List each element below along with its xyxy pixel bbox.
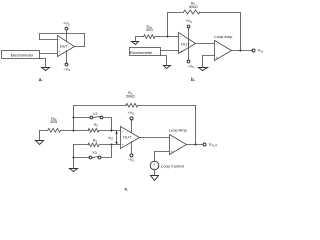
wire feedback right vertical (fig b): [240, 13, 242, 51]
instrument box Electrometer (fig b): [130, 48, 161, 56]
wire loop amp noninverting input to ground (fig b): [203, 56, 215, 68]
svg-text:Loop Amp: Loop Amp: [169, 128, 188, 133]
node A summing junction (fig c): [73, 130, 75, 132]
svg-text:DUT: DUT: [181, 41, 190, 46]
wire DUT output to loop amp (fig c): [140, 137, 170, 139]
svg-text:+: +: [153, 162, 155, 166]
wire electrometer LO stub (fig a): [40, 59, 46, 68]
svg-text:Electrometer: Electrometer: [130, 50, 153, 55]
node summing junction (fig b): [167, 36, 169, 38]
ground left lower (fig c): [70, 169, 78, 172]
svg-text:b.: b.: [191, 77, 195, 82]
wire feedback loop output to inverting input (fig a): [40, 34, 85, 47]
svg-text:K3: K3: [93, 151, 97, 155]
node lower rail right (fig c): [111, 144, 113, 146]
resistor RIN 50ohm (fig c): [48, 117, 61, 132]
ground at input resistor (fig b): [132, 37, 139, 45]
op-amp Loop Amp (fig b): [214, 34, 233, 60]
ground electrometer LO (fig a): [42, 68, 50, 71]
svg-text:+: +: [180, 49, 182, 53]
wire electrometer LO stub (fig b): [161, 56, 167, 66]
switch K2 (fig c): [74, 116, 112, 130]
wire input line (fig c): [40, 130, 121, 132]
terminal +VS (fig b): [185, 18, 192, 28]
svg-text:DUT: DUT: [60, 43, 69, 48]
terminal VOUT (fig b): [252, 48, 266, 54]
wire feedback right vertical (fig c): [195, 106, 197, 145]
wire input node (fig b): [136, 36, 179, 38]
svg-text:Loop Control: Loop Control: [161, 163, 184, 168]
terminal +VS (fig a): [63, 21, 70, 42]
wire top feedback line (fig c): [74, 105, 196, 107]
svg-text:+: +: [59, 50, 61, 54]
svg-text:VIO: VIO: [108, 136, 113, 141]
svg-text:DUT: DUT: [123, 135, 132, 140]
resistor RF 50kohm (fig b): [184, 2, 200, 14]
terminal -VS (fig c): [128, 142, 135, 163]
wire loop control to ground (fig c): [154, 171, 156, 176]
resistor RIN 50ohm (fig b): [144, 25, 156, 39]
wire output (fig c): [187, 144, 203, 146]
svg-text:Electrometer: Electrometer: [11, 52, 34, 57]
svg-text:VOUT: VOUT: [209, 142, 218, 148]
svg-text:−: −: [59, 38, 61, 42]
svg-text:c.: c.: [124, 186, 128, 191]
svg-text:+: +: [171, 150, 173, 154]
ground loop amp input (fig b): [199, 68, 208, 71]
op-amp DUT (fig b): [179, 33, 196, 54]
svg-text:50Ω: 50Ω: [146, 28, 153, 32]
wire DUT inverting input (fig a): [40, 39, 58, 41]
wire supply vertical through DUT (fig b): [188, 28, 190, 60]
wire loop amp noninverting input to loop control (fig c): [155, 152, 170, 162]
svg-text:−: −: [171, 137, 173, 141]
svg-text:−: −: [216, 42, 218, 46]
instrument box Electrometer (fig a): [2, 51, 40, 59]
ground electrometer LO (fig b): [164, 66, 171, 69]
ground loop control (fig c): [151, 176, 159, 181]
source Loop Control (fig c): [150, 161, 184, 171]
svg-text:50kΩ: 50kΩ: [189, 5, 198, 9]
svg-text:+: +: [122, 143, 124, 147]
op-amp U1 DUT (fig a): [58, 36, 75, 57]
measurement arrow VIO (fig c): [108, 131, 118, 145]
node K2 tap (fig c): [73, 117, 75, 119]
node upper rail right (fig c): [111, 130, 113, 132]
resistor RS lower (fig c): [88, 138, 99, 147]
terminal -VS (fig b): [187, 60, 194, 69]
resistor RF 50kohm (fig c): [126, 91, 138, 107]
svg-text:−: −: [122, 129, 124, 133]
wire feedback top (fig b): [168, 12, 241, 14]
op-amp DUT (fig c): [121, 127, 140, 149]
switch K3 (fig c): [74, 145, 112, 159]
wire DUT output to loop amp (fig b): [196, 43, 215, 45]
svg-text:RS: RS: [94, 123, 98, 128]
svg-text:+: +: [216, 56, 218, 60]
svg-text:50Ω: 50Ω: [50, 120, 57, 124]
wire feedback left vertical (fig b): [167, 13, 169, 37]
wire left vertical lower to ground (fig c): [73, 145, 75, 169]
svg-text:K2: K2: [93, 112, 97, 116]
terminal -VS (fig a): [63, 51, 70, 72]
wire lower rail (fig c): [74, 144, 121, 146]
svg-text:Loop Amp: Loop Amp: [214, 34, 233, 39]
svg-text:a.: a.: [39, 77, 43, 82]
svg-text:RS: RS: [93, 138, 97, 143]
wire left vertical upper (fig c): [73, 106, 75, 131]
op-amp Loop Amp (fig c): [169, 128, 188, 155]
node output feedback junction (fig c): [195, 144, 197, 146]
node K3 tap (fig c): [73, 157, 75, 159]
wire electrometer HI to DUT noninverting input (fig b): [161, 50, 179, 52]
terminal +VS (fig c): [127, 110, 134, 133]
node output feedback junction (fig b): [240, 50, 242, 52]
wire electrometer HI to DUT noninverting input (fig a): [40, 53, 58, 55]
svg-text:−: −: [180, 35, 182, 39]
svg-text:50kΩ: 50kΩ: [126, 94, 135, 98]
ground at input resistor (fig c): [36, 131, 44, 145]
terminal VOUT (fig c): [203, 142, 217, 148]
wire output (fig b): [232, 50, 253, 52]
resistor RS upper (fig c): [88, 123, 99, 132]
